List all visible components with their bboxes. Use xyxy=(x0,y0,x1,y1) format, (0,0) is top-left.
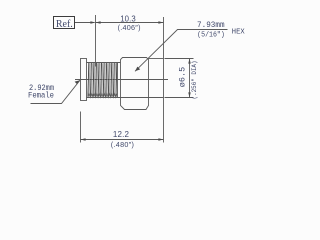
12.2 left extension line xyxy=(80,112,82,143)
right face / shared extension line xyxy=(163,17,165,143)
svg-text:(.406″): (.406″) xyxy=(118,23,141,32)
dia 6.5 extension lines xyxy=(165,58,194,60)
mechanical drawing of 2.92mm female coaxial connector xyxy=(0,0,260,160)
hex leader xyxy=(135,30,228,72)
ref leader arrow (points right) xyxy=(90,21,95,24)
svg-text:Female: Female xyxy=(28,91,54,101)
12.2 left arrow xyxy=(81,138,86,141)
svg-text:(.480″): (.480″) xyxy=(111,140,134,149)
collar cylinder top xyxy=(149,58,164,60)
10.3 dimension line xyxy=(96,22,164,24)
thread texture xyxy=(88,63,117,97)
svg-text:12.2: 12.2 xyxy=(113,130,130,139)
dia top arrow (points up) xyxy=(188,59,191,64)
svg-text:(5/16″): (5/16″) xyxy=(197,31,225,39)
svg-text:(.256″ DIA): (.256″ DIA) xyxy=(191,61,198,100)
ref plane line xyxy=(95,15,97,67)
10.3 left arrow (points left) xyxy=(96,21,101,24)
svg-text:ø6.5: ø6.5 xyxy=(177,67,187,87)
thread top line xyxy=(87,62,121,64)
thread runout vertical xyxy=(117,63,119,98)
12.2 dimension line xyxy=(81,139,164,141)
10.3 right arrow (points right) xyxy=(158,21,163,24)
thread bottom zigzag xyxy=(88,94,117,98)
svg-text:7.93mm: 7.93mm xyxy=(197,21,225,30)
12.2 right arrow xyxy=(158,138,163,141)
arrowheads xyxy=(75,21,191,141)
flange (interface end) xyxy=(81,59,87,101)
ref leader line xyxy=(75,22,95,24)
hex body outline xyxy=(121,58,149,110)
female label leader xyxy=(31,80,81,103)
dia 6.5 dimension line xyxy=(189,59,191,98)
svg-text:HEX: HEX xyxy=(232,28,245,36)
svg-text:Ref.: Ref. xyxy=(56,19,73,30)
Ref box xyxy=(54,17,75,29)
female leader arrow xyxy=(75,80,80,84)
centerline xyxy=(75,79,168,81)
hex leader arrow xyxy=(135,67,140,72)
long bottom line threads+hex+collar xyxy=(87,97,164,99)
dia bottom arrow (points down) xyxy=(188,92,191,97)
